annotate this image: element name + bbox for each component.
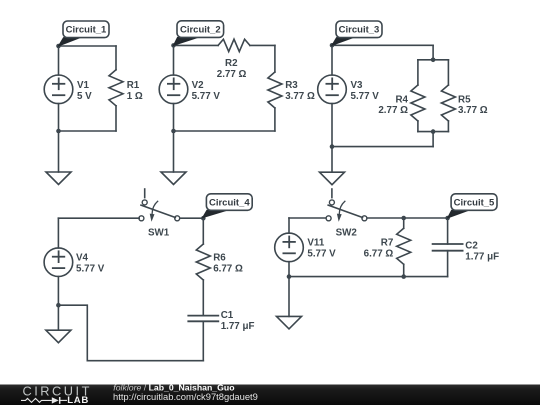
wire bottom C3	[332, 146, 433, 148]
svg-text:V4: V4	[76, 253, 89, 264]
wire bottom C5	[289, 276, 448, 278]
wire left-top C1	[58, 46, 60, 75]
R6 value label	[213, 252, 243, 274]
wire switch to node C4	[180, 217, 203, 219]
node C2 top C5	[445, 216, 450, 221]
wire bottom C1	[59, 130, 117, 132]
wire left-top C5	[288, 218, 290, 233]
voltage source V3	[318, 75, 347, 104]
resistor R7	[397, 218, 411, 277]
R4 value label	[378, 95, 408, 117]
node top C2	[171, 43, 176, 48]
svg-text:R5: R5	[458, 95, 471, 106]
voltage source V4	[44, 248, 73, 277]
svg-text:5.77 V: 5.77 V	[351, 91, 380, 102]
wire top-left C5	[289, 217, 326, 219]
ground C5	[277, 316, 302, 329]
svg-text:5.77 V: 5.77 V	[76, 264, 105, 275]
node bottom-left C5	[287, 274, 292, 279]
svg-text:C1: C1	[221, 310, 234, 321]
node bottom C1	[56, 129, 61, 134]
SW1 name label	[148, 227, 170, 238]
wire to ground C3	[331, 147, 333, 173]
V11 value label	[307, 238, 336, 260]
svg-text:R3: R3	[285, 80, 298, 91]
switch SW2	[326, 189, 367, 222]
wire top C1	[59, 45, 117, 47]
svg-text:R6: R6	[213, 252, 226, 263]
svg-text:V1: V1	[77, 80, 90, 91]
wire left-top C4	[57, 218, 59, 248]
wire top C3	[332, 44, 433, 46]
resistor R6	[196, 218, 210, 315]
R2 value label	[217, 58, 247, 80]
CircuitLab logo	[21, 383, 92, 405]
svg-text:R2: R2	[225, 58, 238, 69]
V2 value label	[192, 80, 221, 102]
footer title text	[113, 382, 258, 401]
resistor R2	[218, 39, 250, 51]
svg-text:1.77 μF: 1.77 μF	[465, 252, 499, 263]
svg-text:2.77 Ω: 2.77 Ω	[217, 69, 247, 80]
wire top-left C4	[58, 217, 139, 219]
ground C4	[46, 330, 71, 343]
label Circuit_3	[332, 21, 382, 45]
node parallel bottom C3	[431, 129, 436, 134]
wire left-bottom C3	[331, 104, 333, 147]
wire bottom C4	[58, 305, 203, 361]
V1 value label	[77, 80, 92, 102]
svg-text:1 Ω: 1 Ω	[127, 91, 143, 102]
resistor R3	[268, 45, 282, 131]
svg-text:5.77 V: 5.77 V	[192, 91, 221, 102]
node bottom C2	[171, 129, 176, 134]
label Circuit_2	[174, 21, 224, 46]
svg-text:6.77 Ω: 6.77 Ω	[213, 263, 243, 274]
svg-text:5 V: 5 V	[77, 91, 92, 102]
wire left-bottom C1	[58, 104, 60, 131]
ground C2	[161, 172, 186, 185]
svg-text:V11: V11	[307, 238, 324, 249]
svg-text:LAB: LAB	[67, 395, 89, 405]
capacitor C2	[433, 218, 463, 277]
svg-text:Circuit_2: Circuit_2	[180, 24, 221, 35]
wire parallel bottom bar C3	[418, 131, 449, 133]
R1 value label	[127, 80, 143, 102]
svg-text:Circuit_5: Circuit_5	[454, 198, 495, 209]
node bottom C3	[330, 144, 335, 149]
node top C1	[56, 44, 61, 49]
node parallel top C3	[431, 58, 436, 63]
V4 value label	[76, 253, 105, 275]
node top C3	[330, 43, 335, 48]
wire left-bottom C5	[288, 262, 290, 277]
label Circuit_1	[59, 21, 110, 46]
ground C3	[320, 172, 345, 185]
wire left-top C3	[331, 45, 333, 75]
resistor R1	[109, 46, 123, 131]
svg-text:V2: V2	[192, 80, 205, 91]
wire top-left C2	[174, 44, 219, 46]
wire top-right C2	[250, 44, 275, 46]
C2 value label	[465, 241, 499, 263]
SW2 name label	[336, 227, 358, 238]
svg-text:5.77 V: 5.77 V	[307, 249, 336, 260]
wire bottom C2	[174, 130, 275, 132]
wire left-bottom C4	[57, 277, 59, 306]
R3 value label	[285, 80, 315, 102]
wire to ground C2	[173, 131, 175, 172]
node R7 top C5	[401, 216, 406, 221]
svg-text:SW1: SW1	[148, 227, 170, 238]
wire drop to parallel C3	[432, 45, 434, 60]
node R7 bottom C5	[401, 274, 406, 279]
svg-text:R1: R1	[127, 80, 140, 91]
svg-text:Circuit_1: Circuit_1	[66, 25, 107, 36]
resistor R5	[441, 60, 455, 132]
wire parallel top bar C3	[418, 59, 449, 61]
svg-text:Circuit_4: Circuit_4	[209, 197, 250, 208]
R7 value label	[364, 238, 394, 260]
wire to ground C4	[57, 305, 59, 330]
node bottom C4	[56, 303, 61, 308]
wire left-top C2	[173, 45, 175, 75]
label Circuit_5	[448, 194, 497, 218]
node top C4	[201, 216, 206, 221]
resistor R4	[411, 60, 425, 132]
svg-text:R4: R4	[395, 95, 408, 106]
wire to ground C1	[58, 131, 60, 172]
capacitor C1	[188, 316, 218, 361]
footer bar	[0, 382, 540, 405]
wire drop from parallel C3	[432, 132, 434, 147]
svg-text:Circuit_3: Circuit_3	[339, 25, 380, 36]
svg-text:R7: R7	[381, 238, 394, 249]
svg-text:C2: C2	[465, 241, 478, 252]
voltage source V2	[159, 75, 188, 104]
label Circuit_4	[203, 194, 253, 218]
voltage source V1	[44, 75, 73, 104]
svg-text:V3: V3	[351, 80, 364, 91]
svg-text:2.77 Ω: 2.77 Ω	[378, 105, 408, 116]
V3 value label	[351, 80, 380, 102]
wire to ground C5	[288, 277, 290, 317]
R5 value label	[458, 95, 488, 117]
svg-text:1.77 μF: 1.77 μF	[221, 321, 255, 332]
wire switch to node C5	[367, 217, 448, 219]
C1 value label	[221, 310, 255, 332]
ground C1	[46, 172, 71, 185]
wire left-bottom C2	[173, 104, 175, 131]
voltage source V11	[275, 233, 304, 262]
svg-text:6.77 Ω: 6.77 Ω	[364, 249, 394, 260]
svg-text:3.77 Ω: 3.77 Ω	[285, 91, 315, 102]
svg-text:http://circuitlab.com/ck97t8gd: http://circuitlab.com/ck97t8gdauet9	[113, 391, 258, 402]
svg-text:SW2: SW2	[336, 227, 358, 238]
switch SW1	[139, 189, 180, 222]
svg-text:3.77 Ω: 3.77 Ω	[458, 105, 488, 116]
